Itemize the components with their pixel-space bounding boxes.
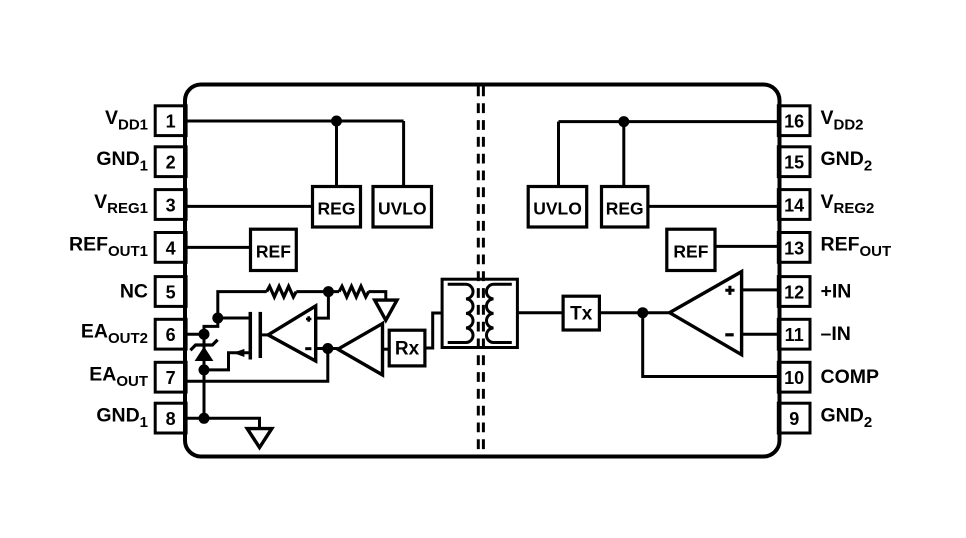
wire GND1 pin 8 to ground xyxy=(186,418,260,428)
svg-text:15: 15 xyxy=(784,153,804,173)
svg-text:Rx: Rx xyxy=(395,339,420,360)
wire -IN pin 11 to op-amp xyxy=(742,333,778,336)
svg-text:4: 4 xyxy=(166,238,176,258)
node junction EAOUT2 xyxy=(199,329,210,340)
isolation barrier dashed line right xyxy=(482,87,485,457)
wire zener vertical EAOUT2 to GND1 xyxy=(203,334,206,418)
pin 5 box xyxy=(155,277,186,307)
wire -input to buffer output node xyxy=(316,347,338,350)
svg-text:REG: REG xyxy=(606,199,644,219)
svg-text:COMP: COMP xyxy=(821,366,880,388)
wire R2 to ground xyxy=(368,292,385,301)
wire COMP pin 10 to output node xyxy=(643,313,778,377)
wire source lead with bend xyxy=(204,353,249,370)
wire Tx to op-amp output node xyxy=(599,311,669,314)
svg-text:UVLO: UVLO xyxy=(533,199,582,219)
MOSFET Q1 source arrow xyxy=(233,349,244,357)
svg-text:–IN: –IN xyxy=(821,323,851,345)
wire +input to R1/R2 node xyxy=(316,292,329,319)
MOSFET Q1 channel bar xyxy=(249,312,253,360)
regulator REG side 2 xyxy=(602,187,648,228)
svg-text:2: 2 xyxy=(166,153,176,173)
wire jog node to EAOUT2 node xyxy=(204,318,218,334)
node junction VDD1/REG side 1 xyxy=(331,116,342,127)
wire feedback node to resistor R1 xyxy=(218,292,267,318)
svg-text:16: 16 xyxy=(784,112,804,132)
transformer T1 box xyxy=(442,279,517,347)
ground symbol upper xyxy=(375,300,397,320)
svg-text:8: 8 xyxy=(166,409,176,429)
pin 6 box xyxy=(155,319,186,349)
node junction -input/buffer/EAOUT xyxy=(322,343,333,354)
wire R1 to node, node to R2 xyxy=(296,290,339,293)
wire VREG2 pin 14 to REG xyxy=(648,205,778,208)
svg-text:12: 12 xyxy=(784,283,804,303)
wire EAOUT2 pin 6 to node xyxy=(186,333,204,336)
wire gate to op-amp output xyxy=(260,333,268,336)
transformer T1 secondary coil xyxy=(486,284,511,342)
svg-text:5: 5 xyxy=(166,283,176,303)
reference REF side 2 xyxy=(667,229,715,270)
wire +IN pin 12 to op-amp xyxy=(742,288,778,291)
wire VREG1 pin 3 to REG xyxy=(186,205,313,208)
svg-text:13: 13 xyxy=(784,238,804,258)
svg-text:REF: REF xyxy=(673,242,708,262)
op-amp A2 plus sign xyxy=(725,286,734,295)
svg-text:9: 9 xyxy=(789,409,799,429)
resistor R1 feedback xyxy=(267,286,297,297)
pin 9 box xyxy=(778,403,810,433)
zener diode D1 cathode bar xyxy=(190,340,217,351)
wire VDD2 pin 16 to UVLO/REG side 2 xyxy=(559,122,779,187)
svg-text:NC: NC xyxy=(120,281,148,303)
receiver Rx block xyxy=(389,330,425,366)
op-amp A2 triangle xyxy=(670,272,742,355)
op-amp A2 minus sign xyxy=(725,333,733,336)
wire Rx to transformer xyxy=(425,313,442,348)
regulator REG side 1 xyxy=(313,187,361,228)
op-amp A1 triangle xyxy=(268,306,316,361)
wire REFOUT1 pin 4 to REF xyxy=(186,246,251,249)
wire drain to MOSFET xyxy=(218,317,249,320)
zener diode D1 anode triangle xyxy=(195,347,214,362)
svg-text:10: 10 xyxy=(784,368,804,388)
resistor R2 xyxy=(339,286,369,297)
pin 1 box xyxy=(155,106,186,136)
pin 13 box xyxy=(778,233,810,263)
svg-text:7: 7 xyxy=(166,368,176,388)
svg-text:REF: REF xyxy=(256,242,291,262)
ground symbol lower xyxy=(247,429,272,448)
MOSFET Q1 gate bar xyxy=(259,312,263,358)
pin 4 box xyxy=(155,233,186,263)
wire buffer to Rx xyxy=(383,348,390,351)
svg-text:Tx: Tx xyxy=(570,304,593,325)
op-amp A1 minus sign xyxy=(305,347,311,350)
pin 16 box xyxy=(778,106,810,136)
wire transformer to Tx xyxy=(517,311,563,314)
pin 2 box xyxy=(155,147,186,177)
pin 15 box xyxy=(778,147,810,177)
svg-text:UVLO: UVLO xyxy=(378,199,427,219)
pin 14 box xyxy=(778,190,810,220)
node junction GND1 xyxy=(199,413,210,424)
wire VDD1 pin 1 to UVLO/REG side 1 xyxy=(186,121,404,187)
svg-text:11: 11 xyxy=(785,325,804,345)
wire EAOUT pin 7 to -input node xyxy=(186,349,328,382)
svg-text:REG: REG xyxy=(318,199,356,219)
IC body xyxy=(185,85,780,457)
reference REF side 1 xyxy=(251,229,297,270)
node junction drain/feedback xyxy=(212,313,223,324)
transformer T1 primary coil xyxy=(448,284,473,342)
node junction R1/R2/+input xyxy=(323,286,334,297)
node junction op-amp output/COMP xyxy=(637,307,648,318)
op-amp A1 plus sign xyxy=(306,316,311,321)
pin 3 box xyxy=(155,190,186,220)
UVLO block side 2 xyxy=(528,187,587,228)
svg-text:3: 3 xyxy=(166,196,176,216)
pin 11 box xyxy=(778,319,810,349)
pin 7 box xyxy=(155,362,186,392)
svg-text:+IN: +IN xyxy=(821,281,852,303)
node junction VDD2/REG side 2 xyxy=(618,116,629,127)
svg-text:1: 1 xyxy=(166,112,176,132)
buffer B1 triangle xyxy=(338,324,383,375)
transmitter Tx block xyxy=(563,296,599,330)
node junction source/zener xyxy=(199,364,210,375)
pin 8 box xyxy=(155,403,186,433)
pin 10 box xyxy=(778,362,810,392)
wire REFOUT pin 13 to REF xyxy=(715,245,778,248)
svg-text:14: 14 xyxy=(784,196,804,216)
pin 12 box xyxy=(778,277,810,307)
svg-text:6: 6 xyxy=(166,325,176,345)
isolation barrier dashed line left xyxy=(477,87,480,457)
UVLO block side 1 xyxy=(373,187,432,228)
